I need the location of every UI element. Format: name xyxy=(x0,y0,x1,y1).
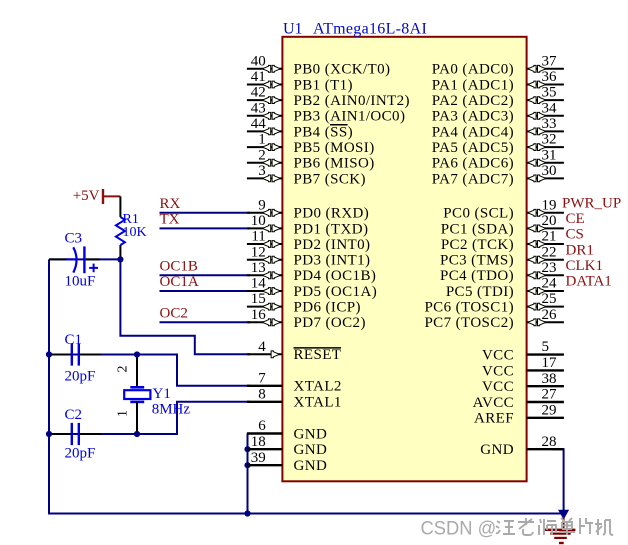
svg-text:20: 20 xyxy=(542,213,557,229)
svg-text:GND: GND xyxy=(294,458,328,474)
wire bottom ground rail xyxy=(48,513,564,515)
svg-text:PA4 (ADC4): PA4 (ADC4) xyxy=(432,124,514,140)
pin 27 (AVCC) stub xyxy=(473,387,564,411)
pin 7 (XTAL2) stub xyxy=(247,370,342,394)
svg-text:PB7 (SCK): PB7 (SCK) xyxy=(294,171,366,187)
pin 19 (PC0 (SCL)) stub xyxy=(443,197,564,221)
svg-text:36: 36 xyxy=(542,69,558,85)
wire net RX to PD0 xyxy=(160,212,251,214)
power port +5V xyxy=(73,188,121,204)
pin 25 (PC6 (TOSC1)) stub xyxy=(424,291,563,315)
svg-text:PB0 (XCK/T0): PB0 (XCK/T0) xyxy=(294,62,391,78)
svg-text:PB6 (MISO): PB6 (MISO) xyxy=(294,156,375,172)
svg-text:5: 5 xyxy=(542,339,550,355)
svg-text:+5V: +5V xyxy=(73,188,100,204)
svg-text:2: 2 xyxy=(115,366,130,373)
svg-text:PD6 (ICP): PD6 (ICP) xyxy=(294,300,361,316)
svg-text:AREF: AREF xyxy=(474,411,514,427)
svg-text:4: 4 xyxy=(258,339,266,355)
svg-text:8: 8 xyxy=(258,386,266,402)
pin 37 (PA0 (ADC0)) stub xyxy=(432,53,564,77)
svg-text:PA2 (ADC2): PA2 (ADC2) xyxy=(432,93,514,109)
svg-text:13: 13 xyxy=(251,260,266,276)
svg-text:7: 7 xyxy=(258,370,266,386)
power port GND arrow xyxy=(559,510,568,518)
pin 33 (PA4 (ADC4)) stub xyxy=(432,116,564,140)
svg-text:25: 25 xyxy=(542,291,557,307)
pin 2 (PB6 (MISO)) stub xyxy=(247,147,375,171)
svg-text:PC0 (SCL): PC0 (SCL) xyxy=(443,206,514,222)
svg-text:RESET: RESET xyxy=(294,347,342,363)
svg-text:22: 22 xyxy=(542,244,557,260)
wire left ground rail vertical xyxy=(48,259,50,513)
svg-text:39: 39 xyxy=(251,450,266,466)
wire net TX to PD1 xyxy=(160,227,251,229)
pin 24 (PC5 (TDI)) stub xyxy=(446,276,564,300)
svg-text:32: 32 xyxy=(542,132,557,148)
pin 31 (PA6 (ADC6)) stub xyxy=(432,147,564,171)
capacitor C1 20pF xyxy=(49,332,101,384)
pin 30 (PA7 (ADC7)) stub xyxy=(432,163,564,187)
svg-text:PC5 (TDI): PC5 (TDI) xyxy=(446,284,514,300)
junction rail-C1 xyxy=(46,351,52,357)
pin 41 (PB1 (T1)) stub xyxy=(247,69,353,93)
pin 14 (PD5 (OC1A)) stub xyxy=(247,276,377,300)
svg-text:U1: U1 xyxy=(283,21,303,38)
pin 1 (PB5 (MOSI)) stub xyxy=(247,132,375,156)
pin 9 (PD0 (RXD)) stub xyxy=(247,197,369,221)
svg-text:10K: 10K xyxy=(123,225,147,240)
wire net OC2 to PD7 xyxy=(160,321,251,323)
pin 26 (PC7 (TOSC2)) stub xyxy=(424,307,563,331)
pin 35 (PA2 (ADC2)) stub xyxy=(432,85,564,109)
svg-text:PC4 (TDO): PC4 (TDO) xyxy=(440,268,514,284)
ground symbol bars xyxy=(545,517,576,543)
svg-text:OC1A: OC1A xyxy=(160,274,199,290)
svg-text:DATA1: DATA1 xyxy=(566,274,612,290)
pin 20 (PC1 (SDA)) stub xyxy=(441,213,564,237)
IC U1 designator and part number xyxy=(283,21,427,38)
svg-text:PA1 (ADC1): PA1 (ADC1) xyxy=(432,77,514,93)
svg-text:38: 38 xyxy=(542,371,557,387)
svg-text:GND: GND xyxy=(294,442,328,458)
svg-text:OC1B: OC1B xyxy=(160,258,198,274)
pin 5 (VCC) stub xyxy=(482,339,564,363)
svg-text:18: 18 xyxy=(251,434,266,450)
wire GND pins 6/18/39 vertical bus xyxy=(247,434,249,514)
svg-text:VCC: VCC xyxy=(482,348,514,364)
svg-text:3: 3 xyxy=(258,163,266,179)
svg-text:15: 15 xyxy=(251,291,266,307)
svg-text:PA6 (ADC6): PA6 (ADC6) xyxy=(432,156,514,172)
wire net OC1A to PD5 xyxy=(160,290,251,292)
junction crystal top node xyxy=(134,351,140,357)
svg-text:ATmega16L-8AI: ATmega16L-8AI xyxy=(313,21,427,38)
pin 34 (PA3 (ADC3)) stub xyxy=(432,100,564,124)
svg-text:20pF: 20pF xyxy=(65,446,96,462)
svg-text:19: 19 xyxy=(542,197,557,213)
junction GND pin18 xyxy=(244,446,250,452)
svg-text:PD0 (RXD): PD0 (RXD) xyxy=(294,206,370,222)
svg-text:10uF: 10uF xyxy=(65,274,96,290)
svg-text:PB3 (AIN1/OC0): PB3 (AIN1/OC0) xyxy=(294,109,406,125)
svg-text:DR1: DR1 xyxy=(566,242,594,258)
svg-text:1: 1 xyxy=(115,410,130,417)
svg-text:GND: GND xyxy=(294,426,328,442)
svg-text:8MHz: 8MHz xyxy=(152,402,191,418)
svg-text:28: 28 xyxy=(542,434,557,450)
svg-text:PD7 (OC2): PD7 (OC2) xyxy=(294,315,366,331)
svg-text:C2: C2 xyxy=(65,407,83,423)
wire XTAL2 net: crystal top to pin 7 xyxy=(49,355,250,386)
svg-text:PC7 (TOSC2): PC7 (TOSC2) xyxy=(424,315,514,331)
pin 17 (VCC) stub xyxy=(482,355,564,379)
svg-text:1: 1 xyxy=(258,132,266,148)
wire net OC1B to PD4 xyxy=(160,274,251,276)
svg-text:PD1 (TXD): PD1 (TXD) xyxy=(294,221,369,237)
svg-text:PA0 (ADC0): PA0 (ADC0) xyxy=(432,62,514,78)
pin 13 (PD4 (OC1B)) stub xyxy=(247,260,376,284)
svg-text:OC2: OC2 xyxy=(160,305,188,321)
svg-text:20pF: 20pF xyxy=(65,368,96,384)
svg-text:PC2 (TCK): PC2 (TCK) xyxy=(441,237,514,253)
svg-text:PA3 (ADC3): PA3 (ADC3) xyxy=(432,109,514,125)
overline over RESET xyxy=(294,347,342,349)
svg-text:PD5 (OC1A): PD5 (OC1A) xyxy=(294,284,378,300)
svg-text:33: 33 xyxy=(542,116,557,132)
svg-text:C3: C3 xyxy=(65,230,83,246)
wire RESET net from R1/C3 node to pin 4 xyxy=(120,259,250,354)
svg-text:9: 9 xyxy=(258,197,266,213)
pin 12 (PD3 (INT1)) stub xyxy=(247,244,371,268)
pin 11 (PD2 (INT0)) stub xyxy=(247,229,371,253)
svg-text:6: 6 xyxy=(258,418,266,434)
svg-text:21: 21 xyxy=(542,229,557,245)
pin 8 (XTAL1) stub xyxy=(247,386,342,410)
pin 15 (PD6 (ICP)) stub xyxy=(247,291,361,315)
svg-text:31: 31 xyxy=(542,147,557,163)
junction crystal bottom node xyxy=(134,431,140,437)
crystal Y1 8MHz xyxy=(124,355,190,435)
svg-text:VCC: VCC xyxy=(482,379,514,395)
svg-text:23: 23 xyxy=(542,260,557,276)
svg-text:16: 16 xyxy=(251,307,267,323)
pin 36 (PA1 (ADC1)) stub xyxy=(432,69,564,93)
svg-text:CLK1: CLK1 xyxy=(566,258,604,274)
svg-text:GND: GND xyxy=(480,442,514,458)
svg-text:34: 34 xyxy=(542,100,558,116)
svg-text:11: 11 xyxy=(251,229,265,245)
pin 29 (AREF) stub xyxy=(474,402,564,426)
junction GND pin39 xyxy=(244,462,250,468)
pin 4 (RESET) stub xyxy=(247,339,341,363)
svg-text:14: 14 xyxy=(251,276,267,292)
pin 21 (PC2 (TCK)) stub xyxy=(441,229,564,253)
svg-text:30: 30 xyxy=(542,163,557,179)
svg-text:PWR_UP: PWR_UP xyxy=(562,195,621,211)
pin 22 (PC3 (TMS)) stub xyxy=(440,244,564,268)
capacitor C3 10uF (polarized) xyxy=(49,230,100,289)
svg-text:XTAL2: XTAL2 xyxy=(294,379,342,395)
svg-text:PD3 (INT1): PD3 (INT1) xyxy=(294,253,371,269)
pin 28 (GND) stub xyxy=(480,434,564,458)
svg-text:37: 37 xyxy=(542,53,558,69)
wire pin 28 GND to ground symbol xyxy=(552,449,564,513)
svg-text:17: 17 xyxy=(542,355,558,371)
svg-text:PA7 (ADC7): PA7 (ADC7) xyxy=(432,171,514,187)
pin 44 (PB4 (SS)) stub xyxy=(247,116,353,140)
pin 43 (PB3 (AIN1/OC0)) stub xyxy=(247,100,405,124)
svg-text:29: 29 xyxy=(542,402,557,418)
svg-text:PB1 (T1): PB1 (T1) xyxy=(294,77,353,93)
svg-text:CSDN @: CSDN @ xyxy=(421,518,497,540)
pin 38 (VCC) stub xyxy=(482,371,564,395)
svg-text:RX: RX xyxy=(160,196,181,212)
svg-text:41: 41 xyxy=(251,69,266,85)
capacitor C2 20pF xyxy=(49,407,101,462)
svg-text:12: 12 xyxy=(251,244,266,260)
pin 3 (PB7 (SCK)) stub xyxy=(247,163,366,187)
pin 16 (PD7 (OC2)) stub xyxy=(247,307,366,331)
pin 10 (PD1 (TXD)) stub xyxy=(247,213,368,237)
junction bottom rail GND bus xyxy=(244,510,250,516)
svg-text:PD4 (OC1B): PD4 (OC1B) xyxy=(294,268,377,284)
wire XTAL1 net: crystal bottom to pin 8 xyxy=(137,402,250,434)
svg-text:AVCC: AVCC xyxy=(473,395,514,411)
svg-text:26: 26 xyxy=(542,307,558,323)
watermark chinese glyph strokes xyxy=(496,521,515,534)
wire C2 row to crystal bottom node xyxy=(49,433,137,435)
junction rail-C2 xyxy=(46,431,52,437)
svg-text:PA5 (ADC5): PA5 (ADC5) xyxy=(432,140,514,156)
junction R1/C3/RESET node xyxy=(117,256,123,262)
svg-text:CS: CS xyxy=(566,227,584,243)
pin 32 (PA5 (ADC5)) stub xyxy=(432,132,564,156)
wire C3 row xyxy=(49,258,120,260)
svg-text:43: 43 xyxy=(251,100,266,116)
svg-text:XTAL1: XTAL1 xyxy=(294,395,342,411)
pin 6 (GND) stub xyxy=(247,418,327,442)
svg-text:2: 2 xyxy=(258,147,266,163)
svg-text:PC3 (TMS): PC3 (TMS) xyxy=(440,253,514,269)
svg-text:42: 42 xyxy=(251,85,266,101)
pin 42 (PB2 (AIN0/INT2)) stub xyxy=(247,85,410,109)
pin 39 (GND) stub xyxy=(247,450,327,474)
svg-text:10: 10 xyxy=(251,213,266,229)
svg-text:PB4 (SS): PB4 (SS) xyxy=(294,124,353,140)
svg-text:PB5 (MOSI): PB5 (MOSI) xyxy=(294,140,375,156)
svg-text:44: 44 xyxy=(251,116,267,132)
pin 18 (GND) stub xyxy=(247,434,327,458)
pin 23 (PC4 (TDO)) stub xyxy=(440,260,564,284)
pin 40 (PB0 (XCK/T0)) stub xyxy=(247,53,390,77)
svg-text:PC1 (SDA): PC1 (SDA) xyxy=(441,221,514,237)
resistor R1 10K xyxy=(116,196,147,259)
svg-text:TX: TX xyxy=(160,211,180,227)
svg-text:CE: CE xyxy=(566,211,585,227)
svg-text:PC6 (TOSC1): PC6 (TOSC1) xyxy=(424,300,514,316)
svg-text:C1: C1 xyxy=(65,332,83,348)
svg-text:35: 35 xyxy=(542,85,557,101)
overline over SS of PB4 xyxy=(330,124,348,126)
svg-text:24: 24 xyxy=(542,276,558,292)
svg-text:27: 27 xyxy=(542,387,558,403)
IC U1 ATmega16L-8AI body xyxy=(282,37,526,482)
svg-text:40: 40 xyxy=(251,53,266,69)
svg-text:PD2 (INT0): PD2 (INT0) xyxy=(294,237,371,253)
svg-text:VCC: VCC xyxy=(482,363,514,379)
svg-text:PB2 (AIN0/INT2): PB2 (AIN0/INT2) xyxy=(294,93,410,109)
svg-text:Y1: Y1 xyxy=(153,386,171,402)
